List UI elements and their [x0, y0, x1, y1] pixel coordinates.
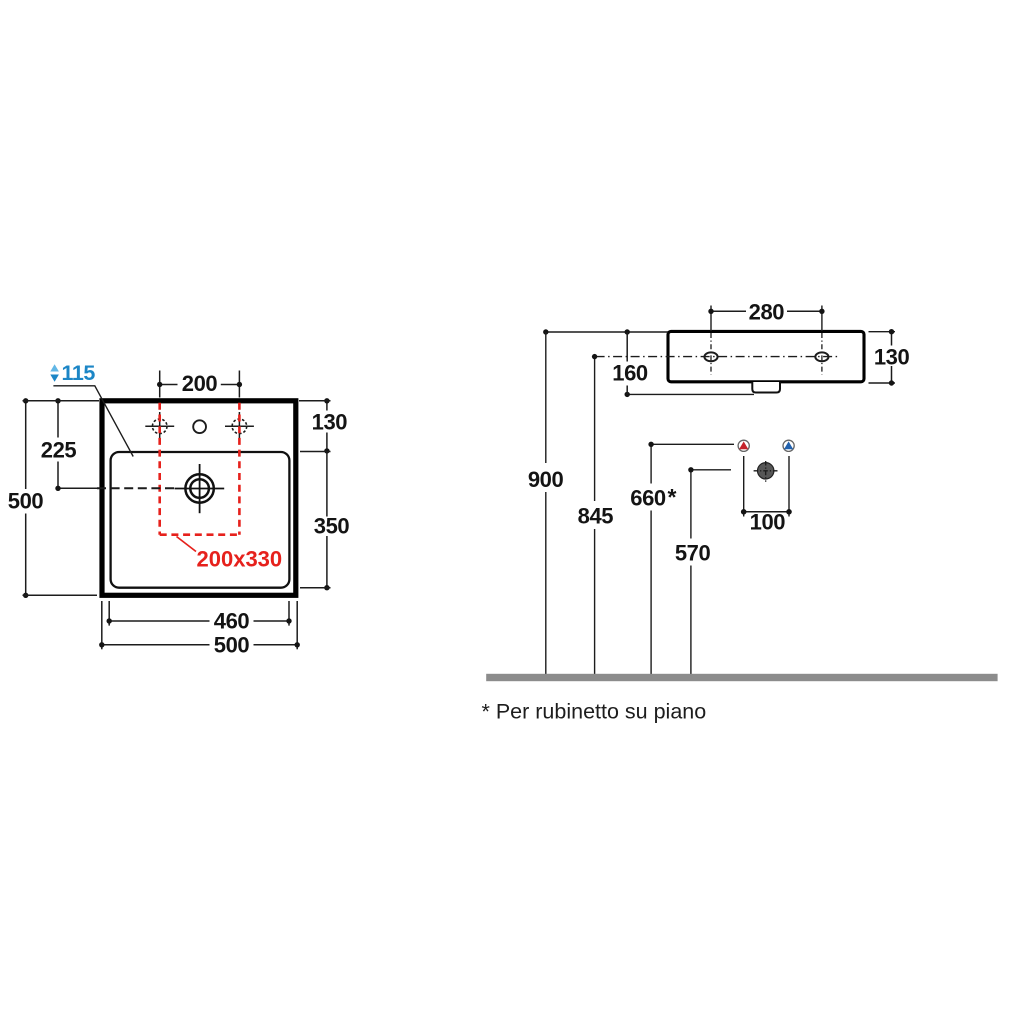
svg-text:460: 460 — [214, 609, 250, 634]
svg-text:130: 130 — [312, 410, 348, 435]
bottom extension verticals — [101, 601, 103, 649]
basin inner bowl — [111, 452, 290, 588]
svg-text:200x330: 200x330 — [197, 546, 283, 571]
svg-text:280: 280 — [749, 299, 785, 324]
dimension 350 right of top view — [326, 451, 328, 517]
red leader — [177, 537, 197, 552]
hot water symbol — [738, 440, 749, 451]
extension line top left — [23, 400, 100, 402]
hanger hole right — [815, 352, 828, 361]
svg-text:225: 225 — [41, 437, 77, 462]
svg-text:115: 115 — [62, 361, 96, 385]
svg-text:*: * — [668, 484, 677, 510]
svg-text:* Per rubinetto su piano: * Per rubinetto su piano — [482, 700, 707, 724]
dimension 660* — [650, 444, 652, 483]
dimension 280 — [711, 310, 746, 312]
floor bar — [486, 674, 997, 681]
side body — [668, 331, 864, 381]
dimension 460 — [109, 620, 209, 622]
dimension 845 — [594, 357, 596, 501]
label 115 blue — [50, 364, 59, 371]
dimension 100 — [743, 456, 745, 517]
center line through side body — [596, 356, 839, 358]
centerline dashed — [58, 487, 97, 489]
extension line bottom left — [23, 594, 98, 596]
extension lines right of top view — [299, 400, 331, 402]
drain top view — [175, 464, 225, 513]
svg-text:900: 900 — [528, 467, 564, 492]
dimension 900 — [545, 332, 547, 463]
drain tab — [752, 382, 780, 393]
svg-text:130: 130 — [874, 345, 910, 370]
cold water symbol — [783, 440, 794, 451]
dimension 570 — [690, 470, 692, 539]
dimension 160 — [626, 332, 628, 362]
svg-text:845: 845 — [578, 504, 614, 529]
dimension 130 side — [869, 331, 896, 333]
top extension to wall dims — [545, 331, 668, 333]
dimension 500 left — [25, 401, 27, 489]
dimension 500 bottom — [102, 644, 210, 646]
svg-text:200: 200 — [182, 371, 218, 396]
svg-text:160: 160 — [612, 361, 648, 386]
faucet hole right — [225, 412, 254, 441]
svg-text:500: 500 — [214, 632, 250, 657]
bottom extension 160 — [627, 393, 754, 395]
red dashed cutout 200x330 — [160, 403, 240, 535]
overflow hole center — [193, 420, 206, 433]
svg-text:500: 500 — [8, 489, 44, 514]
leader line for 115 — [53, 386, 133, 457]
hanger hole left — [704, 352, 717, 361]
svg-text:100: 100 — [750, 510, 786, 535]
svg-text:350: 350 — [314, 514, 350, 539]
svg-text:660: 660 — [630, 486, 666, 511]
dimension 225 — [57, 401, 59, 438]
wall drain circle — [758, 463, 774, 479]
faucet hole left — [145, 412, 174, 441]
dimension 200 top — [159, 371, 161, 398]
svg-text:570: 570 — [675, 541, 711, 566]
basin outer square — [102, 401, 296, 596]
dimension 130 right of top view — [326, 401, 328, 411]
